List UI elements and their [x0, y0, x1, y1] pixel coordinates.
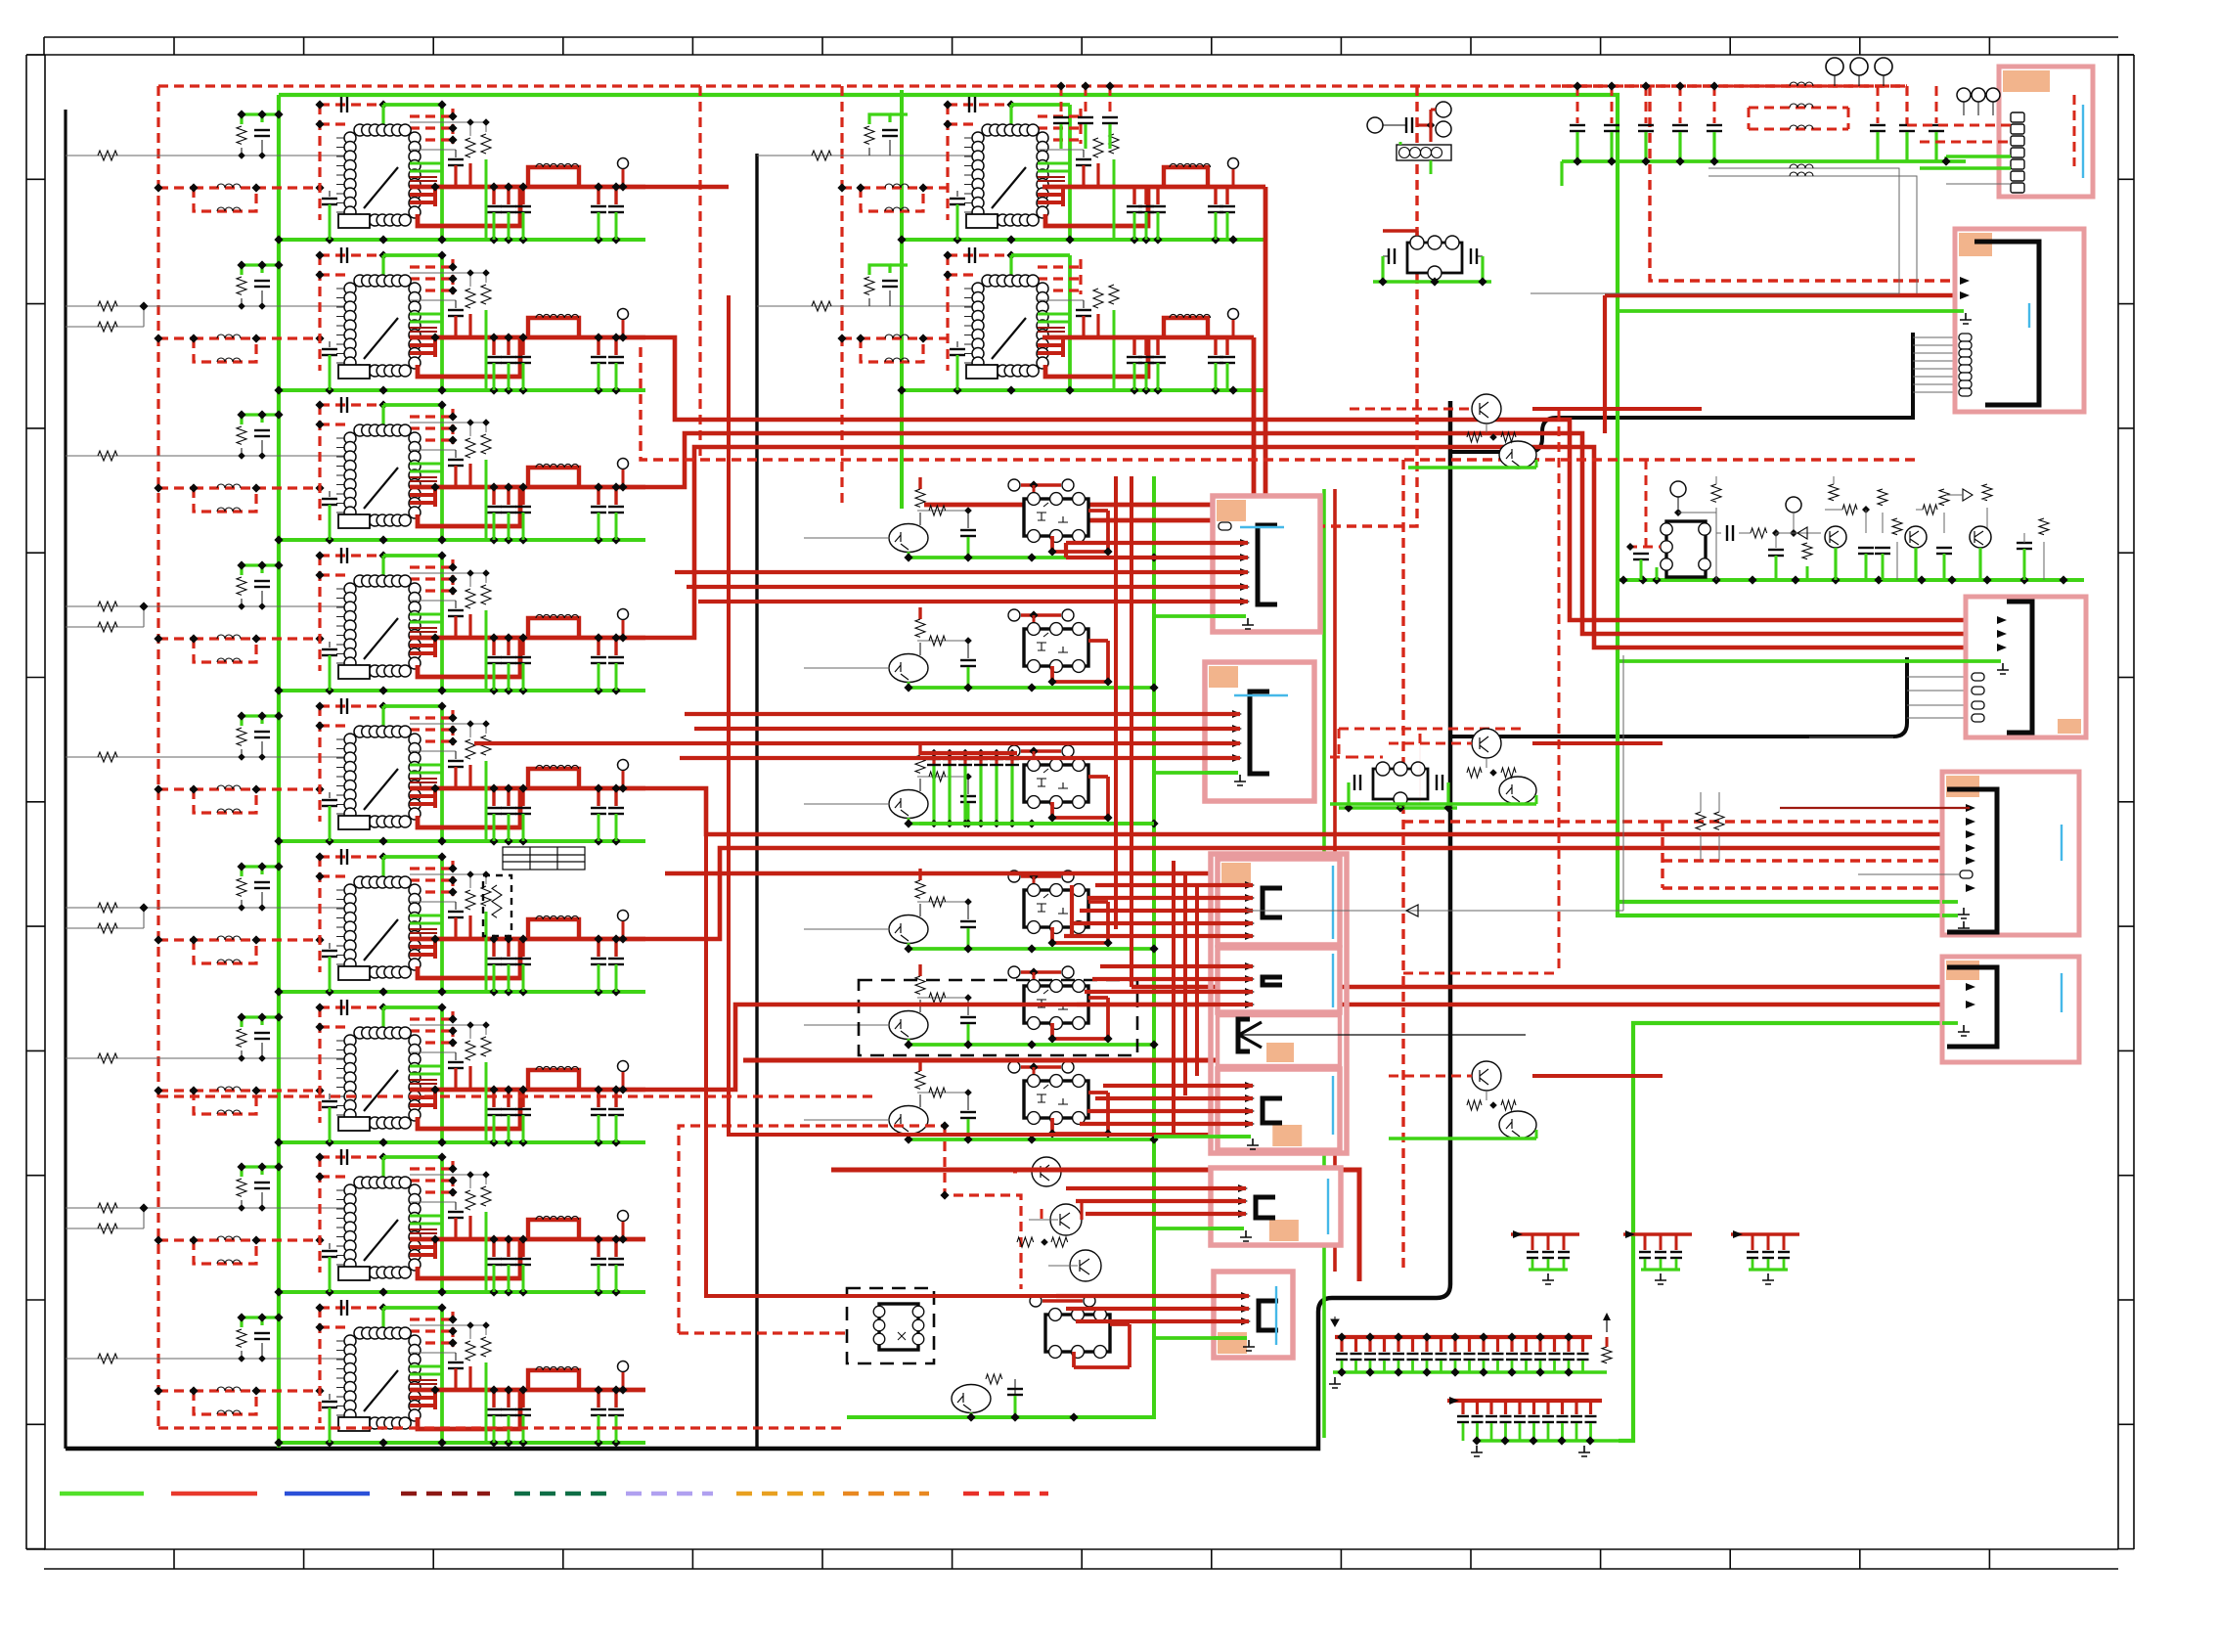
driver stage block at y=798 — [66, 698, 645, 846]
driver stage block at y=337 — [66, 247, 645, 395]
thin resistor pair right — [1696, 792, 1724, 861]
connector J7 — [1878, 229, 2084, 412]
connector J5 — [1218, 1069, 1340, 1150]
wire dashed-red trunk x=1435 — [1401, 460, 1404, 1272]
wire dashed-red middle trunk — [700, 86, 842, 508]
opto-driver stage 3 — [804, 743, 1159, 828]
wire green connector column trunk — [1322, 489, 1326, 1438]
sheet border frame bottom band — [44, 1549, 2118, 1569]
decoupling group trio — [1511, 1230, 1799, 1284]
wire black left power bus — [64, 110, 67, 1449]
capacitor bank row 2 — [1447, 1397, 1619, 1456]
transistor Q upper middle — [1013, 1157, 1061, 1186]
wire dashed-red left trunk — [156, 86, 159, 1428]
wire red bus block6 to J10 — [645, 848, 1970, 939]
wire red bundle into J5 — [1080, 1086, 1253, 1137]
connector J14 (top-right) — [1999, 67, 2093, 197]
connector J5 arrow-in symbol — [1218, 1015, 1526, 1066]
wire dashed-red bottom-left trunk — [158, 1426, 847, 1429]
opto-driver stage 5 — [804, 964, 1159, 1049]
wire red bus block2 to J8 pin1 — [645, 337, 2001, 620]
oscillator module mid — [1339, 757, 1457, 813]
connector J9 — [1214, 1272, 1293, 1358]
connector J3 — [1218, 859, 1340, 945]
wire red output loop of middle block 1 — [924, 187, 1265, 505]
opto-driver stage 1 — [804, 477, 1159, 562]
sheet border frame top band — [44, 37, 2118, 55]
wire dashed-red riser to J6 — [1220, 86, 1417, 526]
wire red into J7 pin — [1605, 293, 1974, 298]
wire red horizontal trunk y=1196 — [831, 1170, 1359, 1281]
wire green top trunk — [279, 95, 1956, 915]
driver stage block at y=1106 — [66, 1000, 645, 1147]
wire red bus block7 to J11 — [645, 1005, 1970, 1090]
wire red bus block5 to J10 — [645, 788, 1970, 834]
opto-driver stage 6 — [804, 1059, 1159, 1144]
wire black net to connector J12 pins — [1450, 333, 1959, 452]
dashed select box around comparator module — [847, 1288, 934, 1363]
wire dashed-red feeds J10 — [1403, 822, 1970, 888]
connector J6 — [1211, 1168, 1341, 1245]
driver stage block (middle) at y=337 — [757, 247, 1265, 395]
connector J10 — [1858, 772, 2079, 935]
capacitor trio middle-top — [1053, 81, 1118, 149]
wire red bundle into J4 — [1077, 966, 1253, 1005]
wire dashed-red at oscillator mid — [1330, 729, 1526, 757]
wire black bottom ground bus — [66, 401, 1450, 1449]
transistor pair B right zone — [1330, 729, 1536, 804]
circles trio at J14 — [1957, 88, 2000, 115]
dashed-red wiring of comparator module — [679, 1121, 1021, 1333]
wire green into J7 — [1618, 309, 1878, 313]
wire red bundle into J2 — [474, 714, 1240, 773]
driver stage block at y=1413 — [66, 1300, 645, 1448]
input filter module top — [1367, 102, 1451, 174]
connector group J3 outer frame — [1211, 854, 1347, 1153]
connector J1 pin oval — [1219, 522, 1231, 530]
connector J2 — [1205, 662, 1314, 801]
wire green right riser to J10 — [1619, 1023, 1956, 1441]
wire red middle verticals — [1116, 476, 1131, 987]
connector J4 — [1218, 948, 1340, 1012]
opto-driver stage 4 — [804, 869, 1159, 954]
wire green left trunk — [277, 95, 281, 1448]
driver stage block at y=644 — [66, 548, 645, 695]
wire red long vertical x=722 — [706, 834, 1214, 1296]
wire red bundle into J3 — [1064, 861, 1253, 1135]
wire red bus block4 to J8 pin3 — [645, 447, 2001, 647]
lookup table grid — [503, 847, 585, 870]
wire dashed-red top trunk — [158, 86, 1907, 125]
wire red bundle into J6 connector — [1066, 1188, 1246, 1228]
antenna circles trio — [1826, 58, 1892, 86]
dashed-red vertical right-mid — [1403, 411, 1646, 973]
capacitor bank row 1 — [1329, 1313, 1612, 1388]
wire red bundle into J1 — [675, 543, 1248, 616]
wires into J14 — [1907, 125, 2011, 184]
legend color key — [60, 1492, 1048, 1496]
connector J2 blue mark — [1234, 694, 1288, 696]
transistor pair mid-column — [1017, 1203, 1101, 1281]
wire dashed-red mid-left horizontal — [158, 1094, 878, 1097]
connector J1 blue mark — [1240, 526, 1284, 528]
wire green middle trunk — [900, 90, 904, 509]
red vertical to J7 pin — [1603, 295, 1607, 433]
analog transistor row — [1618, 476, 2084, 585]
driver stage block at y=183 — [66, 97, 645, 245]
wire red bus block1 feed — [645, 185, 729, 190]
wire red output loop of middle block 2 — [1042, 337, 1254, 520]
diode link mid-right — [1247, 655, 1623, 916]
wire green center-column trunk — [847, 476, 1154, 1417]
wire red connector column trunk — [1333, 489, 1337, 1272]
opto-driver stage 7 — [919, 1295, 1154, 1422]
wire dashed-red horizontal y=470 — [641, 347, 1917, 460]
red link from transistor pairs — [1532, 409, 1702, 1076]
driver stage block at y=490 — [66, 397, 645, 545]
sheet border frame left band — [26, 55, 45, 1549]
comparator IC (8-pin) — [873, 1304, 924, 1350]
wire red bus to J11 pin1 — [1131, 985, 1970, 990]
driver stage block (middle) at y=183 — [757, 97, 1265, 245]
wire red long vertical x=745 — [729, 295, 1211, 1135]
wire green into J8 — [1618, 659, 1946, 663]
thin feedback rectangle top-right — [1530, 164, 1899, 293]
transistor pair C right zone — [1389, 1061, 1536, 1139]
green comb of stage 3 — [919, 749, 1154, 827]
wire thin red into J10 — [1780, 807, 1970, 809]
sheet border frame right band — [2118, 55, 2134, 1549]
oscillator module upper — [1373, 231, 1491, 287]
dashed outline resistor option box — [483, 875, 511, 936]
connector J8 — [1946, 597, 2086, 737]
inductor link to J7 zone — [1562, 161, 1917, 293]
dashed select box around stage 5 — [859, 980, 1137, 1055]
connector J11 — [1942, 957, 2079, 1062]
wire dashed-red stub near J14 — [2073, 95, 2076, 166]
wire red bundle into J9 connector — [1056, 1296, 1249, 1338]
wire red bus block3 to J8 pin2 — [645, 433, 2001, 634]
wire red horizontal trunk y=1084 — [743, 1058, 1315, 1063]
decoupling bank top-right — [1562, 81, 1966, 165]
wire black center vertical bus — [755, 154, 758, 1449]
wire red horizontal trunk y=893 — [665, 871, 1211, 876]
wire black net to connector J13 pins — [1450, 657, 1972, 737]
driver stage block at y=1259 — [66, 1149, 645, 1297]
driver stage block at y=952 — [66, 849, 645, 997]
connector J1 — [1213, 496, 1320, 632]
wire dashed-red to J7 — [1650, 86, 1974, 281]
transistor pair A right zone — [1350, 394, 1536, 469]
opto-driver stage 2 — [804, 607, 1159, 692]
